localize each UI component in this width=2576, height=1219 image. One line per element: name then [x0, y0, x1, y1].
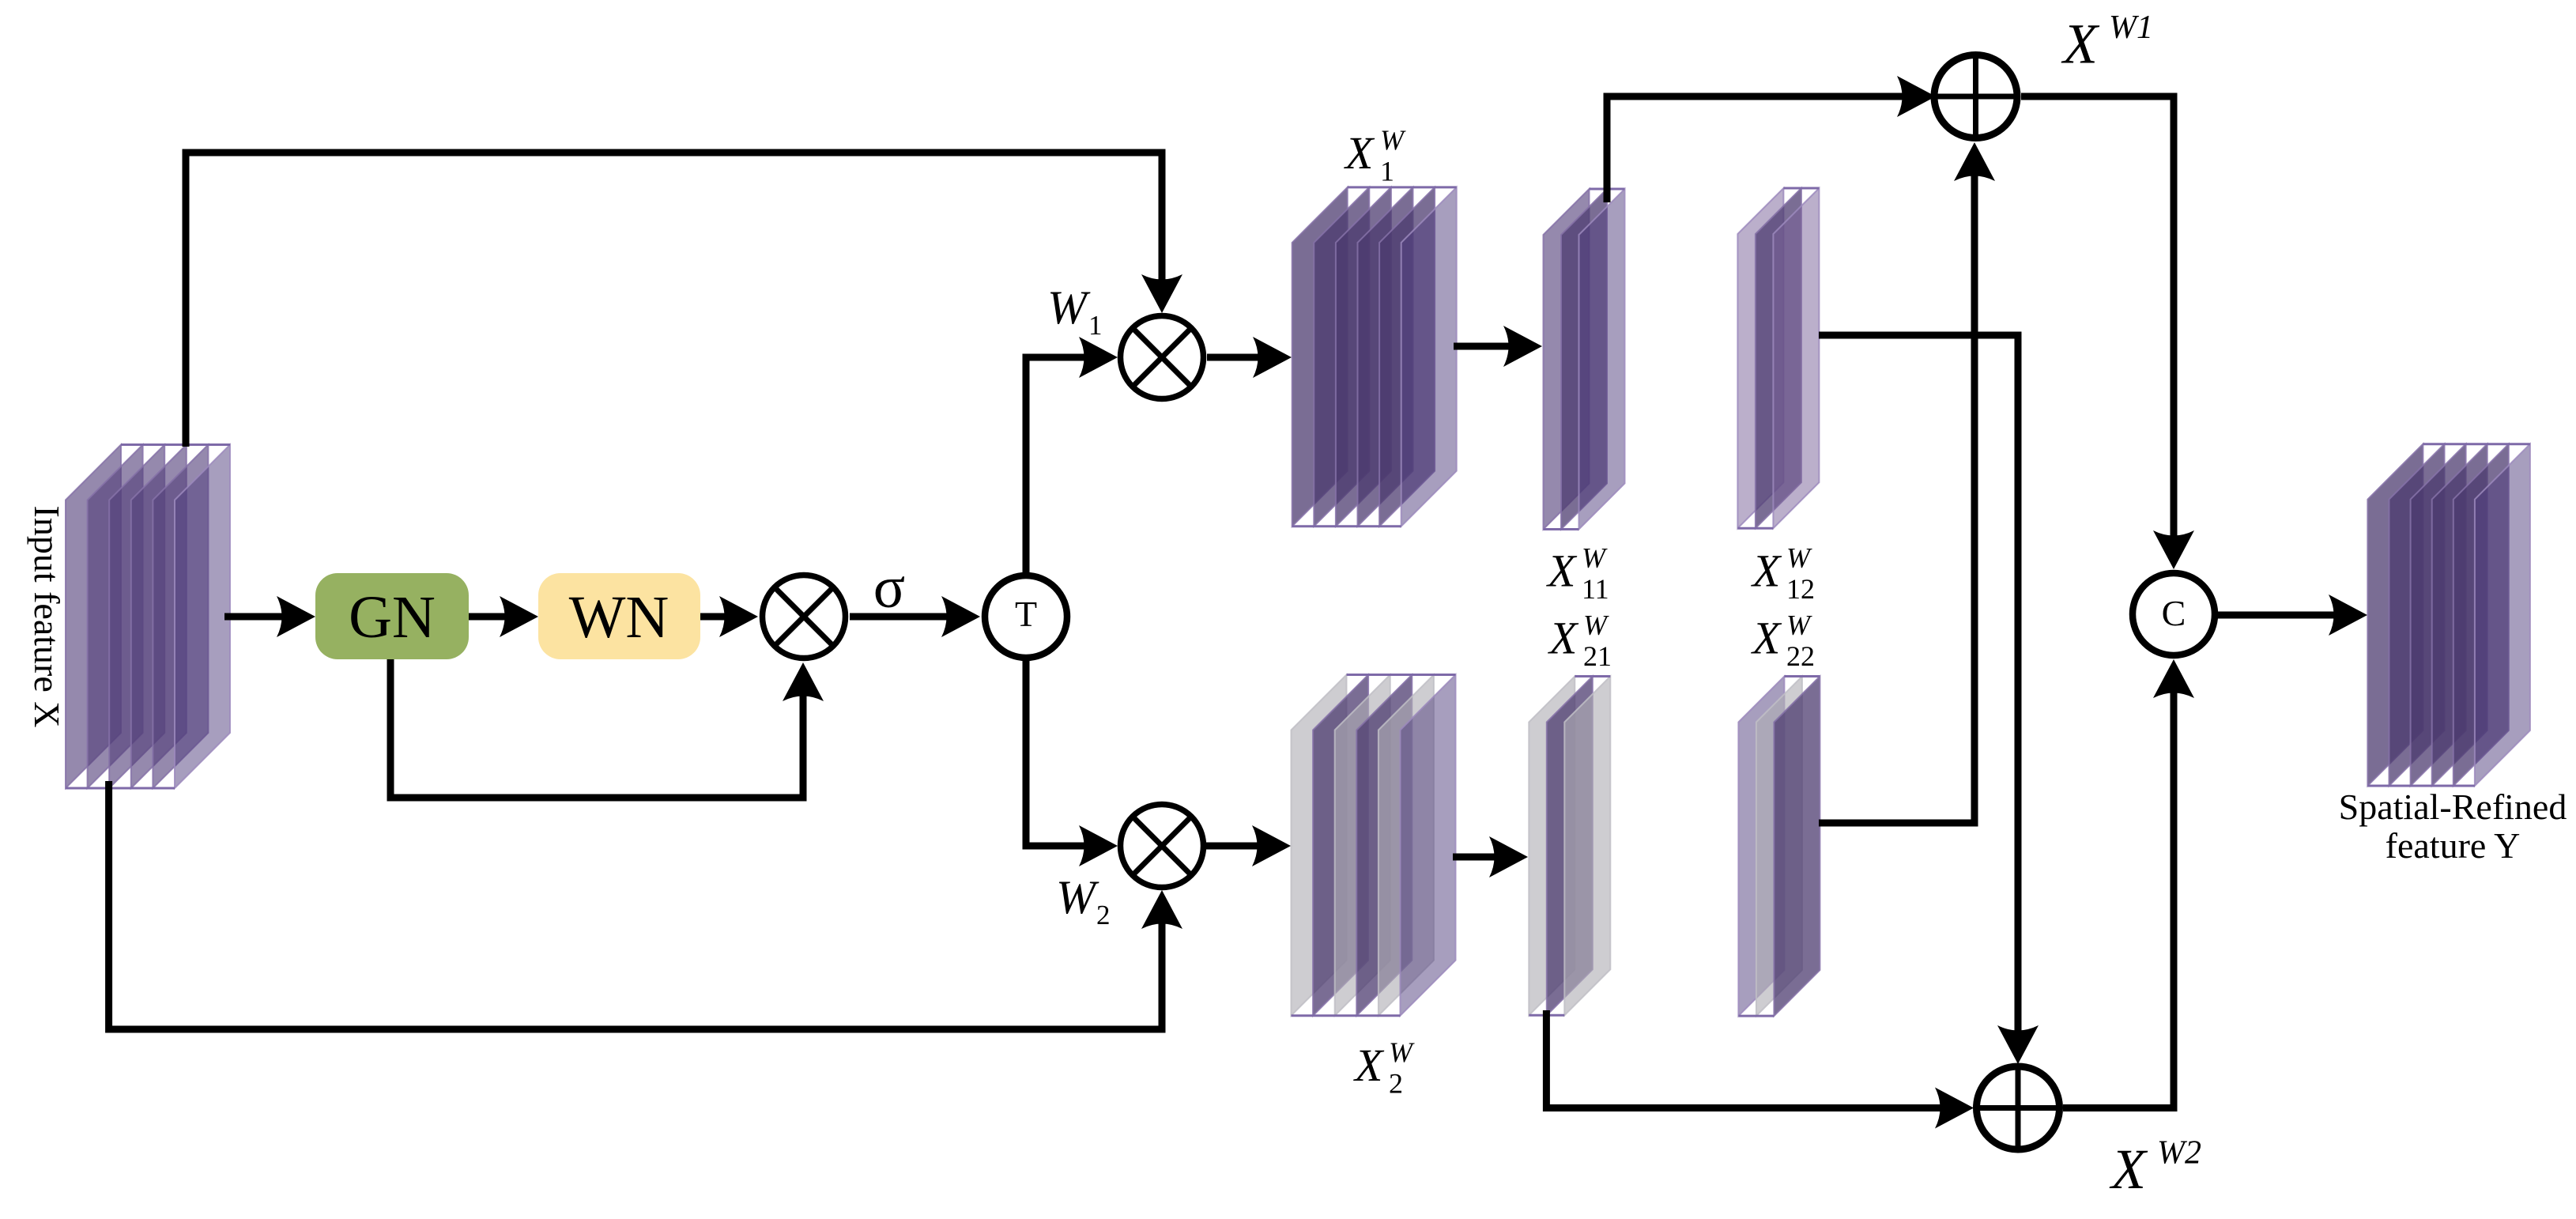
- svg-text:W: W: [1389, 1036, 1415, 1068]
- svg-text:W2: W2: [2157, 1134, 2201, 1171]
- svg-text:X: X: [1751, 613, 1782, 664]
- svg-text:X: X: [2109, 1138, 2148, 1201]
- wire multiply to X2W: [1206, 825, 1291, 866]
- X1W stack: [1292, 187, 1457, 526]
- WN box: [538, 573, 700, 659]
- wire X1W to X11W: [1454, 326, 1542, 367]
- svg-text:W: W: [1786, 609, 1812, 641]
- input feature X stack: [66, 445, 230, 789]
- W1 multiply circle: [1121, 316, 1204, 399]
- X12W stack: [1737, 188, 1819, 528]
- svg-text:X: X: [1546, 545, 1578, 597]
- wire X11W up to add1: [1607, 76, 1936, 202]
- label W1: [1047, 281, 1103, 341]
- concat C circle: [2133, 573, 2215, 655]
- T circle: [985, 576, 1067, 658]
- svg-text:X: X: [1751, 545, 1782, 597]
- wire X21W to add2 left: [1546, 1010, 1974, 1129]
- X22W stack: [1738, 677, 1820, 1017]
- svg-text:W: W: [1047, 281, 1091, 334]
- GN box: [315, 573, 469, 659]
- X2W stack: [1292, 675, 1456, 1016]
- wire input top loop to top multiply: [186, 153, 1182, 447]
- label X21W: [1548, 609, 1612, 673]
- svg-text:12: 12: [1786, 573, 1815, 605]
- wire sigma to T: [850, 596, 980, 637]
- svg-text:22: 22: [1786, 640, 1815, 672]
- svg-text:Spatial-Refined: Spatial-Refined: [2339, 787, 2567, 827]
- label X12W: [1751, 542, 1815, 606]
- label XW1: [2061, 9, 2153, 76]
- label Spatial-Refined feature Y: [2339, 787, 2567, 866]
- wire X12W to add2 top: [1819, 335, 2039, 1064]
- svg-text:C: C: [2162, 593, 2186, 633]
- wire T to W1 multiply: [1026, 337, 1118, 574]
- label X11W: [1546, 542, 1609, 606]
- svg-text:11: 11: [1582, 573, 1609, 605]
- wire add2 to concat bottom: [2063, 659, 2194, 1108]
- svg-text:X: X: [1353, 1040, 1385, 1091]
- wire add1 to concat: [2021, 96, 2194, 569]
- output feature Y stack: [2367, 444, 2530, 786]
- wire input bottom loop to bottom multiply: [109, 781, 1182, 1029]
- W2 multiply circle: [1121, 805, 1204, 888]
- add circle XW1: [1934, 55, 2017, 138]
- label XW2: [2109, 1134, 2201, 1201]
- svg-text:X: X: [1344, 127, 1375, 179]
- wire GN to WN: [469, 596, 538, 637]
- svg-text:W1: W1: [2109, 9, 2153, 46]
- sigmoid multiply circle: [763, 576, 846, 659]
- wire input to GN: [224, 596, 315, 637]
- svg-text:1: 1: [1380, 156, 1394, 187]
- svg-text:T: T: [1015, 594, 1037, 634]
- svg-text:X: X: [1548, 613, 1579, 664]
- svg-text:σ: σ: [873, 555, 905, 621]
- add circle XW2: [1977, 1066, 2060, 1149]
- svg-text:feature Y: feature Y: [2386, 825, 2521, 866]
- wire WN to sigmoid multiply: [700, 596, 758, 637]
- svg-text:W: W: [1786, 542, 1812, 574]
- label X22W: [1751, 609, 1815, 673]
- X11W stack: [1544, 189, 1625, 530]
- svg-text:W: W: [1056, 871, 1099, 923]
- label X2W: [1353, 1036, 1415, 1100]
- svg-text:W: W: [1583, 609, 1609, 641]
- svg-text:21: 21: [1583, 640, 1612, 672]
- wire GN feedback to multiply bottom: [390, 659, 824, 798]
- wire T to W2 multiply: [1026, 659, 1118, 866]
- svg-text:2: 2: [1389, 1068, 1403, 1100]
- svg-text:W: W: [1582, 542, 1608, 574]
- svg-text:W: W: [1380, 124, 1406, 156]
- X21W stack: [1529, 677, 1610, 1016]
- svg-text:GN: GN: [349, 584, 436, 651]
- label W2: [1056, 871, 1111, 930]
- svg-text:WN: WN: [569, 584, 669, 651]
- label X1W: [1344, 124, 1406, 187]
- wire X2W to X21W: [1453, 836, 1528, 877]
- svg-text:2: 2: [1096, 900, 1111, 930]
- wire X22W to add1 bottom: [1819, 142, 1995, 823]
- wire multiply to X1W: [1207, 337, 1292, 378]
- svg-text:1: 1: [1088, 310, 1103, 341]
- svg-text:Input feature X: Input feature X: [27, 506, 67, 728]
- wire concat to output: [2218, 594, 2367, 636]
- svg-text:X: X: [2061, 12, 2100, 75]
